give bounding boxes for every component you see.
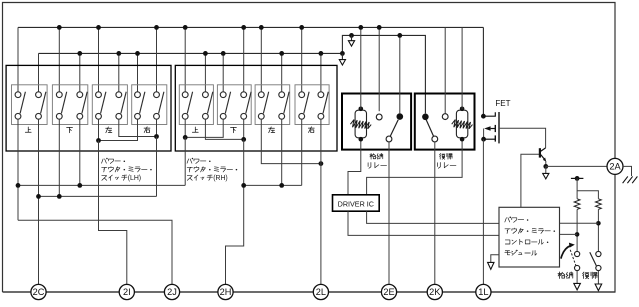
wire: RH up-left join down to bus1 end xyxy=(184,137,186,185)
wire: bar down to resistor R1 xyxy=(576,178,578,198)
return switch arm xyxy=(590,252,597,266)
switch cell box RH-下 xyxy=(217,85,251,125)
wire: retract switch to down-arrow xyxy=(576,271,578,284)
wire: LH left-mirror-left contacts join (x98.5 to x137.5) xyxy=(99,119,138,140)
junction 2L line xyxy=(319,161,324,166)
wire: line A tap down to switch contact at x=59 xyxy=(58,27,60,91)
label: power outer mirror control module xyxy=(505,218,510,222)
svg-text:(LH): (LH) xyxy=(128,175,141,182)
junction on line A xyxy=(96,25,101,30)
junction xyxy=(279,183,284,188)
wire: line A tap down to switch contact at x=185 xyxy=(184,27,186,91)
switch contact (bottom) xyxy=(279,113,285,119)
FET channel bottom segment xyxy=(494,135,496,141)
switch contact (bottom) xyxy=(96,113,102,119)
wire: LH up-right bottom down to connector 2C xyxy=(38,119,40,284)
retract motion arrow (bold curved) xyxy=(561,246,571,259)
wire: 2A to ground xyxy=(623,166,631,176)
junction xyxy=(183,135,188,140)
switch cell box LH-左 xyxy=(92,85,127,125)
switch cell box RH-上 xyxy=(179,85,213,125)
wire: RH up-left contacts join (x185.2 to x223.2) xyxy=(185,119,223,137)
switch contact (top) RH 上 x=205 xyxy=(203,92,209,98)
wire: LH down-right bottom to bus1 xyxy=(79,119,81,185)
wire: emitter down to node xyxy=(545,161,547,166)
node: power bar rail xyxy=(571,177,584,179)
contact (bottom) return relay xyxy=(432,136,438,142)
switch contact (top) LH 上 x=38 xyxy=(36,92,42,98)
junction R2/module lead xyxy=(596,221,601,226)
wire: bus3 (y=220) to connector 2J xyxy=(18,220,172,284)
wire: LH left-mirror-right contacts join (x118.8 to x156.5) xyxy=(119,119,157,136)
switch arm xyxy=(304,92,309,114)
switch arm xyxy=(101,92,106,114)
junction on line A xyxy=(183,25,188,30)
switch arm xyxy=(284,92,289,114)
coil of return relay xyxy=(456,110,467,138)
switch contact (top) RH 左 x=261 xyxy=(258,92,264,98)
svg-text:2E: 2E xyxy=(383,287,394,297)
wire: bus line B (y=53) from LH switch to down-arrow node xyxy=(39,52,343,54)
switch contact (top) RH 右 x=321 xyxy=(318,92,324,98)
contact (bottom) retract relay xyxy=(386,136,392,142)
switch cell box RH-右 xyxy=(295,85,329,125)
junction xyxy=(57,194,62,199)
switch contact (bottom) xyxy=(15,113,21,119)
connector 2I xyxy=(119,284,134,299)
switch contact (top) LH 右 x=156 xyxy=(154,92,160,98)
connector 2K xyxy=(427,284,442,299)
wire: LH left-pair join down and jog to connector 2I xyxy=(99,141,127,285)
power outer mirror switch (RH) block box xyxy=(175,65,337,151)
switch contact (top) RH 下 x=223 xyxy=(220,92,226,98)
label 左 (LH) xyxy=(106,127,112,133)
junction on line B xyxy=(279,51,284,56)
switch cell box LH-下 xyxy=(52,85,87,125)
wire: FET source down to connector 1L xyxy=(482,139,484,284)
switch contact (top) LH 下 x=80 xyxy=(77,92,83,98)
switch arm xyxy=(263,92,268,114)
junction on line B2 xyxy=(397,33,402,38)
label 上 (LH) xyxy=(25,127,31,132)
wire: RH up-right contacts join (x205.4 to x243.7) xyxy=(205,119,243,139)
wire: stub to down-arrow under line B end xyxy=(341,53,343,59)
switch arm xyxy=(41,92,46,114)
wire: line B tap down to switch contact at x=321 xyxy=(320,53,322,91)
junction on line A xyxy=(241,25,246,30)
wire: line A to retract relay NO contact xyxy=(378,27,380,111)
junction on bar xyxy=(575,176,580,181)
label 左 (RH) xyxy=(269,127,275,133)
switch contact (bottom) xyxy=(116,113,122,119)
junction on line A xyxy=(299,25,304,30)
resistor R2 xyxy=(596,199,602,210)
junction bus2 xyxy=(36,194,41,199)
label 右 (RH) xyxy=(308,127,314,133)
connection arrow (down) return xyxy=(595,284,602,291)
wire: RH down-right line down through bus5, jog to connector 2H xyxy=(226,139,244,284)
switch contact (top) RH 上 x=185 xyxy=(182,92,188,98)
node: FET source junction xyxy=(481,137,486,142)
junction on line A xyxy=(154,25,159,30)
svg-text:FET: FET xyxy=(495,99,510,108)
junction bus1/upleft xyxy=(16,183,21,188)
switch arm xyxy=(159,92,164,114)
switch contact (bottom) xyxy=(220,113,226,119)
label: power outer mirror switch (RH) xyxy=(187,159,192,163)
wire: line A tap down to switch contact at x=18 xyxy=(17,27,19,91)
switch arm xyxy=(208,92,213,114)
wire: line A to return relay NO contact xyxy=(444,27,446,113)
junction bus5 left xyxy=(241,183,246,188)
switch cell box LH-右 xyxy=(132,85,167,125)
junction xyxy=(154,134,159,139)
connector 2E xyxy=(381,284,396,299)
junction xyxy=(377,25,382,30)
connection arrow (down) from line B2 tap xyxy=(348,41,354,46)
resistor R1 xyxy=(574,199,580,210)
switch contact (bottom) xyxy=(135,113,141,119)
node: line B end junction xyxy=(340,51,345,56)
wire: DRIVER IC out2 to control module xyxy=(367,211,499,223)
relay box: return relay (fukki) xyxy=(415,94,475,150)
svg-text:2H: 2H xyxy=(220,287,232,297)
switch arm xyxy=(323,92,328,114)
switch arm xyxy=(82,92,87,114)
junction on line B xyxy=(203,51,208,56)
switch cell box RH-左 xyxy=(255,85,290,125)
switch contact (bottom) xyxy=(56,113,62,119)
return position switch top contact xyxy=(596,251,601,256)
connection arrow (down) from module xyxy=(488,262,494,269)
svg-text:DRIVER IC: DRIVER IC xyxy=(338,199,374,208)
wire: emitter stub to down-arrow xyxy=(545,166,547,173)
wire: line A down to FET drain xyxy=(482,27,484,116)
switch contact (bottom) xyxy=(241,113,247,119)
svg-text:2C: 2C xyxy=(33,287,45,297)
connector 2H xyxy=(218,284,233,299)
label: return relay (fukki relay) xyxy=(440,154,445,160)
wire: LH down-left bottom to bus2 xyxy=(58,119,60,196)
label 下 (RH) xyxy=(230,127,236,132)
label: power outer mirror switch (LH) xyxy=(102,159,107,163)
FET Q2: drain lead hook xyxy=(483,112,495,116)
switch arm xyxy=(140,92,145,114)
wire: line A to retract relay coil xyxy=(360,27,362,109)
contact (common, closed) retract relay xyxy=(397,113,404,120)
junction on line B xyxy=(77,51,82,56)
label: kakunou (retract) xyxy=(558,272,565,279)
svg-text:2A: 2A xyxy=(609,162,621,172)
switch cell box LH-上 xyxy=(12,85,48,125)
wire: DRIVER IC out1 to control module xyxy=(348,211,499,235)
connection arrow (down) at line B end xyxy=(339,60,345,65)
svg-text:(RH): (RH) xyxy=(213,175,228,182)
relay arm retract xyxy=(390,120,398,137)
svg-text:2K: 2K xyxy=(429,287,441,297)
switch contact (bottom) xyxy=(203,113,209,119)
junction R1/module lead xyxy=(575,232,580,237)
junction on line B xyxy=(116,51,121,56)
relay box: retract relay (kakunou) xyxy=(342,94,411,150)
switch contact (top) LH 上 x=18 xyxy=(15,92,21,98)
wire: LH right-pair join down to bus2 end xyxy=(156,137,158,197)
power outer mirror switch (LH) block box xyxy=(6,65,171,151)
junction on line B xyxy=(221,51,226,56)
wire: bus2 (y=196) linking to LH right-pair join xyxy=(39,195,157,197)
coil of retract relay xyxy=(355,110,366,138)
ground (chassis) hatch xyxy=(623,176,638,183)
junction on line A xyxy=(57,25,62,30)
connector 2C xyxy=(31,284,46,299)
junction xyxy=(77,183,82,188)
label: retract relay (kakunou relay) xyxy=(370,153,376,159)
switch arm xyxy=(61,92,66,114)
switch arm xyxy=(121,92,126,114)
switch arm xyxy=(225,92,230,114)
wire: line B tap down to switch contact at x=223 xyxy=(222,53,224,91)
connector 2A xyxy=(607,158,623,174)
switch contact (top) RH 右 x=302 xyxy=(299,92,305,98)
wire: RH left-mirror-right bottom to bus5 xyxy=(281,119,283,185)
connection arrow (down) retract xyxy=(574,283,581,290)
wire: bus5 RH bottoms join (y=185.4) xyxy=(244,184,302,186)
junction on line A xyxy=(259,25,264,30)
contact (common, closed) return relay xyxy=(422,114,429,121)
wire: RH right-mirror-left bottom to bus5 end xyxy=(301,119,303,185)
switch contact (bottom) xyxy=(258,113,264,119)
wire: line A tap down to switch contact at x=261 xyxy=(260,27,262,91)
transistor emitter with arrow xyxy=(541,155,546,161)
wire: line B tap down to switch contact at x=205 xyxy=(204,53,206,91)
connector 2J xyxy=(164,284,179,299)
wire: line A tap down to switch contact at x=302 xyxy=(301,27,303,91)
junction on line B xyxy=(135,51,140,56)
retract position switch top contact xyxy=(575,251,580,256)
switch contact (bottom) xyxy=(77,113,83,119)
wire: module lead to down-arrow xyxy=(491,255,499,263)
switch contact (bottom) xyxy=(318,113,324,119)
switch contact (bottom) xyxy=(154,113,160,119)
switch arm xyxy=(246,92,251,114)
FET channel middle segment xyxy=(494,125,496,132)
wire: R2 down to return-position switch xyxy=(597,209,599,251)
switch contact (bottom) xyxy=(182,113,188,119)
switch contact (top) LH 左 x=119 xyxy=(116,92,122,98)
wire: return relay contact down to connector 2K xyxy=(434,142,436,285)
switch contact (bottom) xyxy=(299,113,305,119)
wire: emitter node to connector 2A xyxy=(546,165,608,167)
wire: line B2 to retract relay common xyxy=(399,35,401,113)
wire: line B tap down to switch contact at x=119 xyxy=(118,53,120,91)
svg-text:2L: 2L xyxy=(316,287,326,297)
junction xyxy=(358,25,363,30)
wire: retract relay coil to DRIVER IC xyxy=(348,141,361,194)
transistor Q1 base bar xyxy=(539,148,541,157)
transistor collector xyxy=(541,148,546,151)
connector 2L xyxy=(313,284,328,299)
switch arm xyxy=(187,92,192,114)
switch arm xyxy=(20,92,25,114)
wire: return switch to down-arrow xyxy=(597,271,599,284)
wire: FET body to source xyxy=(483,129,485,140)
label: fukki (return) xyxy=(583,272,589,279)
node: emitter junction xyxy=(543,164,548,169)
wire: line A tap down to switch contact at x=156 xyxy=(156,27,158,91)
switch contact (bottom) xyxy=(36,113,42,119)
wire: FET gate lead to transistor collector xyxy=(499,128,546,148)
wire: line B tap down to switch contact at x=282 xyxy=(281,53,283,91)
label 右 (LH) xyxy=(144,127,150,133)
wire: bus line A (y=27) from LH upper-left switch to FET drain xyxy=(18,26,483,28)
wire: stub to down-arrow from line B2 xyxy=(351,35,353,40)
wire: R1 down to retract-position switch xyxy=(576,209,578,251)
control module box xyxy=(499,207,560,267)
contact (open) return relay xyxy=(442,114,448,120)
wire: line B tap down to switch contact at x=38 xyxy=(38,53,40,91)
wire: branch to resistor R2 xyxy=(577,191,598,199)
retract switch dashed arm xyxy=(570,250,576,266)
FET gate bar xyxy=(498,112,500,143)
FET source lead xyxy=(484,138,496,140)
switch contact (top) LH 下 x=59 xyxy=(56,92,62,98)
wire: module right lead lower xyxy=(560,233,578,235)
switch contact (top) LH 右 x=138 xyxy=(135,92,141,98)
junction xyxy=(241,137,246,142)
svg-text:2I: 2I xyxy=(123,287,131,297)
svg-text:2J: 2J xyxy=(167,287,177,297)
return position switch bottom contact xyxy=(596,265,601,270)
switch contact (top) RH 左 x=282 xyxy=(279,92,285,98)
switch contact (top) LH 左 x=98 xyxy=(96,92,102,98)
label 上 (RH) xyxy=(192,127,198,132)
relay arm return xyxy=(426,120,433,137)
label 下 (LH) xyxy=(67,127,73,132)
wire: line B tap down to switch contact at x=80 xyxy=(79,53,81,91)
contact (open) retract relay xyxy=(376,114,382,120)
wire: ground bus along bottom xyxy=(3,291,616,293)
svg-text:1L: 1L xyxy=(478,287,488,297)
wire: LH up-left bottom down through bus1 xyxy=(17,119,19,220)
wire: RH right-mirror-right bottom down to connector 2L xyxy=(320,119,322,284)
wire: RH left-mirror-left join to 2L line (y=163.9) xyxy=(261,119,321,163)
wire: bus line B2 (y=35) relay feed xyxy=(342,35,425,113)
switch contact (top) RH 下 x=244 xyxy=(241,92,247,98)
junction xyxy=(96,138,101,143)
retract position switch bottom contact xyxy=(575,265,580,270)
wire: bus1 (y=185.4) linking LH bottoms to RH join xyxy=(18,184,185,186)
wire: return relay coil to DRIVER IC xyxy=(367,141,463,194)
wire: line A tap down to switch contact at x=244 xyxy=(243,27,245,91)
node: FET drain junction xyxy=(481,114,486,119)
junction on line B xyxy=(319,51,324,56)
wire: line B tap down to switch contact at x=138 xyxy=(137,53,139,91)
wire: module right lead upper xyxy=(560,222,599,224)
wire: line A tap down to switch contact at x=98 xyxy=(98,27,100,91)
IC U1: DRIVER IC box xyxy=(333,195,380,211)
node: line B2 tap junction xyxy=(349,33,354,38)
connection arrow (down) below emitter xyxy=(543,173,549,179)
wire: control module pin up to transistor base xyxy=(521,154,539,207)
wire: line A to return relay coil xyxy=(461,27,463,109)
connector 1L xyxy=(476,284,491,299)
FET body arrow (points left) xyxy=(484,126,490,131)
wire: retract relay contact down to connector 2E xyxy=(388,142,390,285)
